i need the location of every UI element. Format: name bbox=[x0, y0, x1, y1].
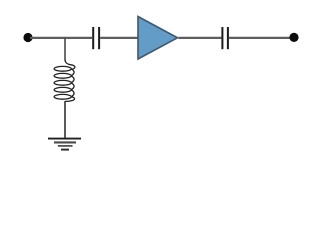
amplifier U1 (buffer triangle) bbox=[138, 17, 178, 60]
node OUT (right terminal dot) bbox=[289, 33, 298, 42]
wire: C1 to amplifier bbox=[100, 37, 138, 39]
wire: amplifier to C2 bbox=[179, 37, 222, 39]
capacitor C1 plates bbox=[93, 27, 99, 49]
wire: left terminal to C1 bbox=[30, 37, 92, 39]
wire: junction vertical drop to L1 bbox=[64, 38, 66, 61]
node IN (left terminal dot) bbox=[23, 33, 32, 42]
wire: L1 to ground bbox=[64, 101, 66, 138]
ground bbox=[48, 139, 81, 150]
inductor L1 (coil) bbox=[54, 60, 75, 101]
capacitor C2 plates bbox=[222, 27, 228, 49]
wire: C2 to right terminal bbox=[229, 37, 292, 39]
